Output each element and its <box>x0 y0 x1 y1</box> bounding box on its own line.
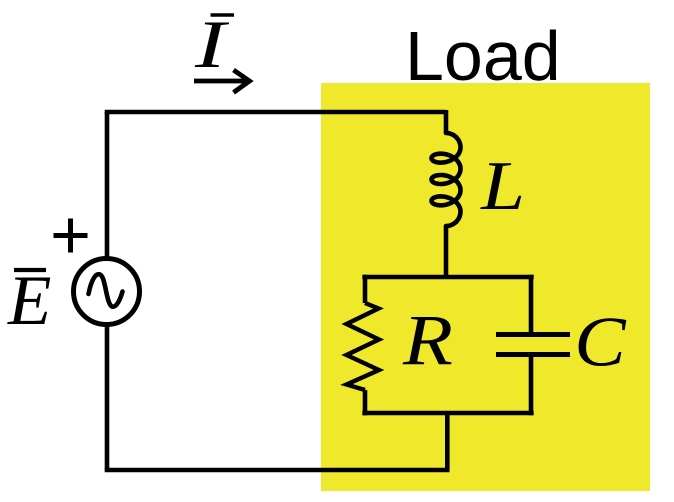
svg-text:I: I <box>194 7 230 82</box>
svg-text:C: C <box>574 303 627 382</box>
resistor R zigzag <box>347 303 380 390</box>
svg-text:R: R <box>402 299 453 379</box>
RC box left edge top lead <box>363 275 368 303</box>
wire left upper <box>105 112 110 260</box>
current arrow <box>194 70 250 93</box>
wire riser bottom to RC box <box>445 411 450 470</box>
RC box right edge bottom lead <box>529 355 534 416</box>
AC source sine wave <box>89 274 123 307</box>
RC box left edge bottom lead <box>363 390 368 415</box>
svg-text:Load: Load <box>405 17 561 95</box>
current label I bar <box>194 7 234 82</box>
RC box right edge top lead <box>529 275 534 335</box>
svg-text:E: E <box>7 262 51 340</box>
inductor L <box>432 133 461 226</box>
label E bar <box>7 262 51 340</box>
capacitor C top plate <box>496 332 570 337</box>
RC box bottom rail <box>362 411 533 416</box>
load region highlight <box>321 83 650 491</box>
capacitor C bottom plate <box>496 352 570 357</box>
plus sign polarity <box>54 219 88 253</box>
AC source circle <box>74 259 140 325</box>
wire bottom <box>105 468 450 473</box>
RC box top rail <box>362 275 533 280</box>
svg-text:L: L <box>480 148 525 225</box>
wire inductor bottom lead <box>444 226 449 279</box>
wire top <box>105 110 446 115</box>
wire left lower <box>105 324 110 470</box>
wire inductor top lead <box>444 110 449 133</box>
